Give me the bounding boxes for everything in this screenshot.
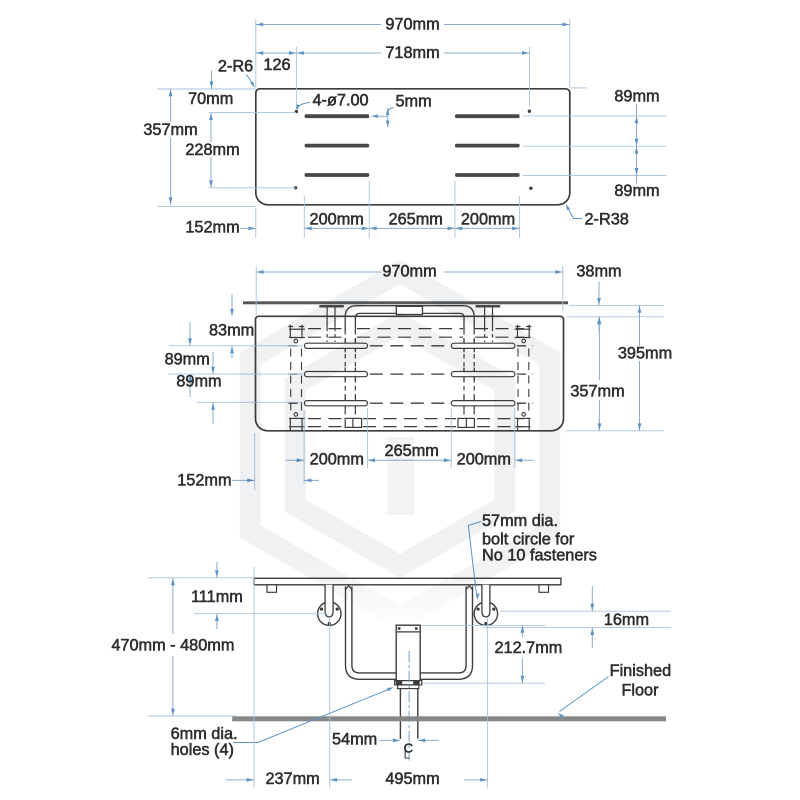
view2 dim 970mm extension lines (255, 266, 257, 315)
svg-text:200mm: 200mm (310, 451, 364, 469)
view2 dim 357mm (598, 317, 600, 380)
view2 corner bracket bottom-left (290, 418, 302, 430)
view2 dim 200mm left (286, 459, 305, 461)
view1 right extension lines (571, 87, 587, 89)
svg-text:212.7mm: 212.7mm (494, 639, 562, 657)
svg-text:237mm: 237mm (265, 770, 319, 788)
view1 dim 126 (256, 52, 297, 54)
svg-text:152mm: 152mm (185, 219, 239, 237)
svg-text:Floor: Floor (621, 682, 659, 700)
view1 seat plate outline (256, 89, 570, 205)
view2 dim 265mm (368, 459, 452, 461)
view2 dim 970mm (256, 271, 381, 273)
svg-text:70mm: 70mm (188, 90, 233, 108)
view3 dim 16mm extension lines (500, 610, 671, 612)
view3 flange left bolt dots (320, 608, 323, 611)
view2 folded leg tube (345, 306, 474, 330)
view1 dim 357mm (170, 89, 172, 122)
view2 bracket hidden lines (290, 349, 292, 414)
view2 dim 395mm (639, 305, 641, 346)
svg-text:holes (4): holes (4) (171, 741, 234, 759)
view1 dim 200mm right (455, 227, 520, 229)
view1 plate-top extension line left (157, 88, 255, 90)
view3 seat plate bar (254, 578, 561, 585)
view1 bottom dim extension lines (255, 208, 257, 238)
svg-text:357mm: 357mm (570, 383, 624, 401)
view3 post collar (395, 681, 422, 685)
view1 slats (305, 114, 370, 118)
svg-text:126: 126 (263, 56, 290, 74)
svg-text:4-ø7.00: 4-ø7.00 (313, 92, 369, 110)
view1 dim 200mm left (304, 227, 369, 229)
view3 strap right (482, 585, 490, 617)
svg-text:228mm: 228mm (185, 141, 239, 159)
view3 floor tube (399, 689, 401, 739)
view1 dim 970mm extension lines (255, 19, 257, 88)
view1 dim 718mm extension line (528, 47, 530, 107)
view2 hanger plates (319, 305, 344, 308)
svg-text:200mm: 200mm (461, 211, 515, 229)
view3 centerline (408, 651, 410, 761)
view3 strap left (325, 585, 333, 617)
view2 leg tube hidden lines (344, 330, 346, 417)
view3 dim 111mm extension lines (148, 577, 254, 579)
view1 dim 228mm (210, 113, 212, 142)
view2 hanger bolts (326, 308, 328, 328)
view2 dim 89mm lower (212, 352, 214, 374)
view2 hidden slat row dashes (289, 345, 303, 347)
svg-text:L: L (404, 750, 410, 762)
view2 dashed hidden rows top (308, 328, 344, 330)
view3 dim 212.7mm extension lines (421, 624, 545, 626)
view3 bottom dim extension lines (253, 567, 255, 788)
view3 dim 212.7mm (521, 625, 523, 637)
view2 dim 89mm upper (189, 322, 191, 346)
view1 dim 265mm (369, 227, 455, 229)
svg-text:2-R6: 2-R6 (218, 58, 253, 76)
view1 dim 89mm top right (636, 104, 638, 184)
svg-text:89mm: 89mm (176, 373, 221, 391)
view1 hole-row extension lines left (209, 112, 296, 114)
svg-text:89mm: 89mm (165, 351, 210, 369)
view3 dim 16mm (591, 586, 593, 611)
view1 mounting holes (295, 110, 298, 113)
svg-text:152mm: 152mm (177, 472, 231, 490)
svg-text:470mm - 480mm: 470mm - 480mm (111, 637, 234, 655)
svg-text:5mm: 5mm (396, 93, 432, 111)
svg-text:89mm: 89mm (614, 182, 659, 200)
view2 seat top bar (243, 301, 568, 304)
view3 plate tabs (267, 585, 277, 593)
svg-text:718mm: 718mm (385, 44, 439, 62)
view2 corner bracket top-right (516, 325, 532, 338)
view3 leg tube (346, 586, 352, 590)
view2 slat capsules (304, 343, 367, 348)
svg-text:111mm: 111mm (191, 588, 243, 606)
view2 corner bracket top-left (288, 325, 304, 338)
svg-text:89mm: 89mm (614, 88, 659, 106)
view1 bottom extension line left (157, 205, 255, 207)
view3 dim 111mm (216, 562, 218, 578)
svg-text:357mm: 357mm (143, 121, 197, 139)
svg-text:38mm: 38mm (576, 263, 621, 281)
view1 dim 718mm (296, 52, 381, 54)
svg-text:395mm: 395mm (618, 345, 672, 363)
svg-text:495mm: 495mm (385, 770, 439, 788)
view3 note 6mm leader (233, 688, 392, 742)
svg-text:970mm: 970mm (385, 16, 439, 34)
view2 corner bracket bottom-right (518, 418, 530, 430)
view1 dim 126 extension line (295, 47, 297, 110)
view3 note 57mm leader (468, 522, 481, 598)
view2 bottom dim extension lines (254, 433, 256, 490)
view2 leg tube bottom brackets (345, 418, 361, 427)
view2 leg tube slat crossings (344, 339, 346, 352)
view2 dim 83mm (231, 294, 233, 316)
view3 dim 470-480mm (172, 578, 174, 634)
view3 flange right bolt dots (477, 608, 480, 611)
svg-text:200mm: 200mm (310, 211, 364, 229)
view2 extension lines left (169, 345, 303, 347)
view3 wall flange left (318, 602, 341, 625)
view1 dim 70mm (211, 71, 213, 89)
view2 dashed hidden rows bottom (308, 418, 344, 420)
view2 tube clip (396, 306, 422, 314)
svg-text:265mm: 265mm (389, 211, 443, 229)
view3 center post (396, 625, 420, 683)
view3 finished floor bar (232, 716, 666, 721)
view3 wall flange right (474, 602, 497, 625)
svg-text:2-R38: 2-R38 (585, 211, 629, 229)
svg-text:16mm: 16mm (604, 611, 649, 629)
svg-text:83mm: 83mm (209, 322, 254, 340)
view1 dim 970mm (256, 24, 381, 26)
svg-text:Finished: Finished (610, 662, 672, 680)
view2 seat plate outline (256, 316, 564, 431)
svg-text:54mm: 54mm (332, 731, 377, 749)
view2 extension lines right (569, 304, 664, 306)
